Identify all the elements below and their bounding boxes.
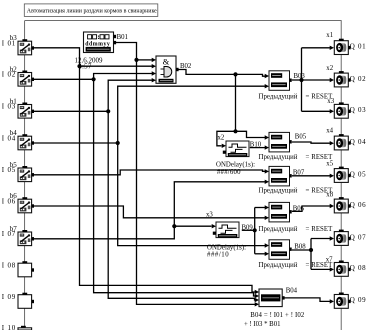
svg-text:I 09: I 09 <box>2 293 16 301</box>
svg-text:Q 09: Q 09 <box>350 296 366 304</box>
svg-text:= RESET: = RESET <box>306 226 334 233</box>
svg-text:B05: B05 <box>295 133 307 140</box>
svg-text:Предыдущий: Предыдущий <box>259 94 298 101</box>
svg-text:x4: x4 <box>326 128 333 135</box>
svg-text:I 05: I 05 <box>2 166 16 174</box>
svg-text:Автоматизация линии раздачи ко: Автоматизация линии раздачи кормов в сви… <box>27 9 157 15</box>
svg-text:+ ! I03 * B01: + ! I03 * B01 <box>244 321 281 328</box>
svg-text:Q 06: Q 06 <box>350 201 366 209</box>
svg-text:I 08: I 08 <box>2 261 16 269</box>
svg-text:Q 07: Q 07 <box>350 233 366 241</box>
svg-text:B10: B10 <box>250 142 262 149</box>
svg-text:x1: x1 <box>326 32 333 39</box>
svg-text:I 04: I 04 <box>2 134 16 142</box>
svg-text:###/10: ###/10 <box>207 252 229 259</box>
svg-text:= RESET: = RESET <box>306 262 334 269</box>
svg-text:Q 03: Q 03 <box>350 106 366 114</box>
svg-text:I 10: I 10 <box>2 324 16 330</box>
svg-text:Q 08: Q 08 <box>350 264 366 272</box>
svg-text:&: & <box>163 57 170 67</box>
svg-text:B04 = ! I01 + ! I02: B04 = ! I01 + ! I02 <box>250 312 305 319</box>
svg-text:B02: B02 <box>180 63 192 70</box>
svg-text:x3: x3 <box>206 212 213 219</box>
svg-text:Q 02: Q 02 <box>350 75 366 83</box>
svg-text:ddmmyy: ddmmyy <box>85 42 110 48</box>
svg-text:ONDelay(1s):: ONDelay(1s): <box>207 244 246 251</box>
svg-text:B08: B08 <box>294 243 306 250</box>
svg-text:Предыдущий: Предыдущий <box>259 226 298 233</box>
svg-text:B03: B03 <box>294 73 306 80</box>
svg-text:ONDelay(1s):: ONDelay(1s): <box>216 162 255 169</box>
svg-text:Предыдущий: Предыдущий <box>259 262 298 269</box>
svg-text:B04: B04 <box>286 287 298 294</box>
svg-text:B01: B01 <box>117 34 128 41</box>
svg-text:I 06: I 06 <box>2 197 16 205</box>
svg-text:Предыдущий: Предыдущий <box>259 188 298 195</box>
svg-text:B07: B07 <box>293 170 305 177</box>
svg-text:I 02: I 02 <box>2 71 16 79</box>
svg-text:B06: B06 <box>293 205 305 212</box>
svg-text:B09: B09 <box>242 225 254 232</box>
svg-text:Q 04: Q 04 <box>350 138 366 146</box>
svg-text:###/600: ###/600 <box>217 169 241 176</box>
svg-text:= RESET: = RESET <box>306 154 334 161</box>
svg-text:= RESET: = RESET <box>306 188 334 195</box>
svg-text:Предыдущий: Предыдущий <box>259 154 298 161</box>
svg-text:x5: x5 <box>326 160 333 167</box>
svg-text:I 07: I 07 <box>2 230 16 238</box>
svg-text:x2: x2 <box>218 134 225 141</box>
svg-text:Q 01: Q 01 <box>350 42 366 50</box>
svg-text:x2: x2 <box>326 65 333 72</box>
svg-text:4:57: 4:57 <box>78 63 92 71</box>
svg-text:Q 05: Q 05 <box>350 170 366 178</box>
svg-text:I 01: I 01 <box>2 39 16 47</box>
svg-text:I 03: I 03 <box>2 103 16 111</box>
svg-text:= RESET: = RESET <box>306 94 334 101</box>
